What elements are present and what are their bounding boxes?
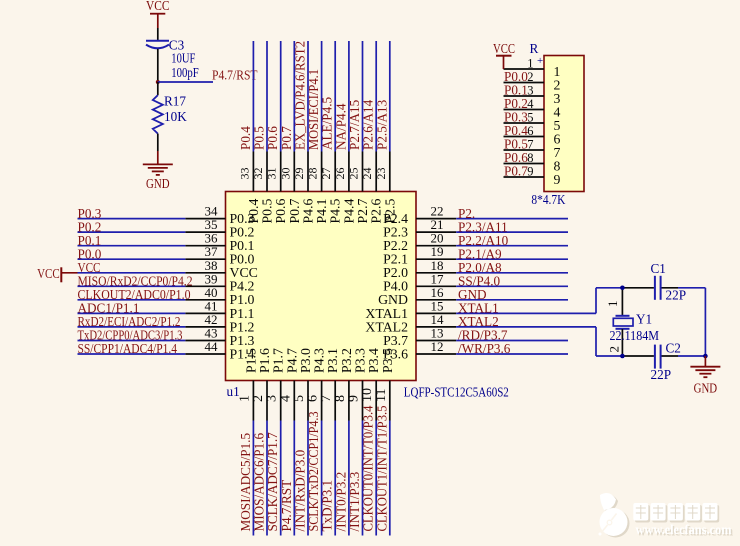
pin 30 P0.7 (top) (278, 41, 302, 224)
pin 2 of R (504, 69, 545, 84)
svg-text:2: 2 (607, 346, 622, 353)
svg-text:VCC: VCC (146, 0, 170, 13)
pin 1 of R (504, 57, 545, 71)
wire XTAL2 down (595, 327, 597, 356)
pin 4 P4.7/RST (bottom) (278, 348, 299, 536)
svg-text:VCC: VCC (37, 266, 60, 281)
svg-text:25: 25 (347, 168, 361, 180)
pin 29 EX_LVD/P4.6/RST2 (top) (292, 41, 316, 224)
svg-text:+: + (537, 55, 543, 67)
svg-text:23: 23 (374, 168, 388, 180)
pin 33 P0.4 (top) (237, 41, 261, 224)
svg-text:22P: 22P (666, 288, 687, 303)
svg-text:29: 29 (292, 168, 306, 180)
svg-text:22.1184M: 22.1184M (610, 328, 660, 343)
capacitor C3 10UF/100pF (146, 38, 199, 80)
svg-text:4: 4 (527, 97, 534, 111)
pin 8 /INT0/P3.2 (bottom) (333, 348, 354, 536)
svg-text:9: 9 (527, 165, 533, 179)
svg-text:12: 12 (431, 339, 444, 354)
pin 4 of R (504, 96, 545, 111)
pin 39 MISO/RxD2/CCP0/P4.2 (left) (78, 271, 255, 293)
svg-text:GND: GND (146, 176, 170, 191)
svg-text:P0.7: P0.7 (504, 164, 528, 179)
ground GND (right) (690, 356, 720, 396)
pin 8 of R (504, 150, 545, 165)
svg-text:27: 27 (319, 168, 333, 180)
svg-text:P4.7/RST: P4.7/RST (212, 68, 258, 83)
pin 6 SCLK/TxD2/CCP1/P4.3 (bottom) (306, 348, 327, 536)
svg-text:u1: u1 (227, 384, 240, 399)
pin 16 GND (right) (378, 285, 568, 307)
svg-text:CLKOUT1/INT/T1/P3.5: CLKOUT1/INT/T1/P3.5 (374, 405, 389, 531)
svg-text:P2.5/A13: P2.5/A13 (374, 99, 389, 150)
pin 7 TxD/P3.1 (bottom) (319, 348, 340, 536)
pin 6 of R (504, 123, 545, 138)
pin 19 P2.1/A9 (right) (383, 244, 568, 266)
IC U1 STC12C5A60S2 body (226, 192, 417, 381)
wire XTAL1 up (595, 288, 597, 314)
pin 37 P0.0 (left) (78, 244, 255, 266)
pin 14 XTAL2 (right) (365, 312, 596, 334)
pin 20 P2.2/A10 (right) (383, 231, 568, 253)
svg-text:10UF: 10UF (171, 51, 195, 66)
svg-text:C1: C1 (651, 261, 666, 276)
svg-text:31: 31 (265, 168, 279, 180)
svg-text:8: 8 (527, 151, 533, 165)
svg-text:P2.5: P2.5 (382, 198, 397, 223)
svg-text:11: 11 (374, 389, 389, 402)
pin 21 P2.3/A11 (right) (383, 217, 568, 239)
pin 27 ALE/P4.5 (top) (319, 41, 343, 224)
pin 17 SS/P4.0 (right) (383, 271, 568, 293)
svg-text:GND: GND (694, 381, 718, 396)
svg-text:7: 7 (527, 138, 533, 152)
ground GND (left) (143, 164, 173, 191)
svg-text:6: 6 (527, 124, 533, 138)
svg-text:SS/CPP1/ADC4/P1.4: SS/CPP1/ADC4/P1.4 (78, 341, 178, 356)
pin 5 /INT/RxD/P3.0 (bottom) (292, 348, 313, 536)
pin 9 of R (504, 164, 545, 179)
resistor R17 10K (153, 94, 187, 134)
pin 10 CLKOUT0/INT/T0/P3.4 (bottom) (360, 348, 381, 536)
pin 32 P0.5 (top) (251, 41, 275, 224)
svg-text:R: R (530, 41, 539, 56)
pin 41 ADC1/P1.1 (left) (78, 298, 255, 320)
pin 15 XTAL1 (right) (365, 298, 596, 320)
wire C3 to junction (157, 49, 159, 82)
power port VCC (resistor network) (493, 41, 515, 69)
pin 23 P2.5/A13 (top) (374, 41, 398, 224)
pin 13 /RD/P3.7 (right) (383, 326, 568, 348)
svg-text:C2: C2 (666, 341, 681, 356)
power port VCC (left, pin 38) (37, 266, 77, 282)
node top rail junction (620, 286, 625, 291)
pin 40 CLKOUT2/ADC0/P1.0 (left) (78, 285, 255, 307)
crystal Y1 22.1184M (605, 288, 659, 356)
svg-text:/WR/P3.6: /WR/P3.6 (458, 341, 511, 356)
svg-text:9: 9 (554, 172, 561, 187)
pin 24 P2.6/A14 (top) (360, 41, 384, 224)
pin 26 NA/P4.4 (top) (333, 41, 357, 224)
wire junction to R17 (157, 82, 159, 95)
pin 2 MIOS/ADC6/P1.6 (bottom) (251, 348, 272, 536)
capacitor C1 22P (651, 261, 687, 303)
svg-text:10K: 10K (164, 109, 187, 124)
pin 38 VCC (left) (78, 258, 258, 280)
node P4.7/RST junction (156, 80, 160, 84)
node bottom rail junction (620, 354, 625, 359)
pin 18 P2.0/A8 (right) (383, 258, 568, 280)
pin 11 CLKOUT1/INT/T1/P3.5 (bottom) (374, 348, 395, 536)
svg-text:33: 33 (237, 168, 251, 180)
svg-text:1: 1 (605, 301, 620, 308)
resistor network R 8*4.7K body (544, 56, 584, 192)
wire bottom rail (596, 355, 705, 357)
svg-text:3: 3 (527, 84, 533, 98)
svg-text:30: 30 (278, 168, 292, 180)
pin 9 /INT1/P3.3 (bottom) (347, 348, 368, 536)
pin 44 SS/CPP1/ADC4/P1.4 (left) (78, 339, 255, 361)
svg-text:44: 44 (205, 339, 219, 354)
pin 3 SCLK/ADC7/P1.7 (bottom) (265, 348, 286, 536)
svg-text:5: 5 (527, 111, 533, 125)
pin 43 TxD2/CPP0/ADC3/P1.3 (left) (78, 326, 255, 348)
svg-text:24: 24 (360, 168, 374, 180)
svg-text:1: 1 (527, 57, 533, 71)
svg-text:2: 2 (527, 70, 533, 84)
svg-text:P3.5: P3.5 (380, 348, 395, 373)
pin 28 MOSI/ECI/P4.1 (top) (306, 41, 330, 224)
power port VCC (top left) (146, 0, 170, 14)
svg-text:28: 28 (306, 168, 320, 180)
wire VCC to C3 (157, 14, 159, 40)
wire R17 to GND (157, 134, 159, 151)
pin 34 P0.3 (left) (78, 204, 255, 226)
wire to net label P4.7/RST (158, 81, 213, 83)
pin 31 P0.6 (top) (265, 41, 289, 224)
svg-text:VCC: VCC (493, 41, 515, 56)
svg-text:Y1: Y1 (636, 312, 652, 327)
svg-text:www.elecfans.com: www.elecfans.com (636, 522, 732, 537)
svg-text:LQFP-STC12C5A60S2: LQFP-STC12C5A60S2 (404, 385, 509, 400)
wire top rail (596, 287, 705, 289)
pin 35 P0.2 (left) (78, 217, 255, 239)
svg-text:32: 32 (251, 168, 265, 180)
capacitor C2 22P (651, 341, 681, 382)
pin 22 P2. (right) (383, 204, 568, 226)
svg-text:26: 26 (333, 168, 347, 180)
svg-text:8*4.7K: 8*4.7K (531, 192, 565, 207)
wire right rail (704, 288, 706, 356)
pin 1 MOSI/ADC5/P1.5 (bottom) (237, 348, 258, 536)
svg-text:100pF: 100pF (171, 65, 199, 80)
pin 3 of R (504, 83, 545, 98)
pin 5 of R (504, 110, 545, 125)
svg-text:22P: 22P (651, 367, 672, 382)
pin 36 P0.1 (left) (78, 231, 255, 253)
pin 25 P2.7/A15 (top) (347, 41, 371, 224)
pin 12 /WR/P3.6 (right) (383, 339, 568, 361)
pin 42 RxD2/ECI/ADC2/P1.2 (left) (78, 312, 255, 334)
node right rail junction (703, 354, 708, 359)
pin 7 of R (504, 137, 545, 152)
svg-text:R17: R17 (164, 94, 186, 109)
